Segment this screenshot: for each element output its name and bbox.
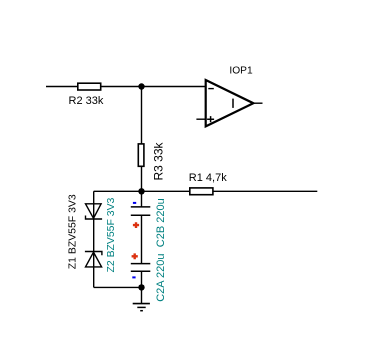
wire bottom-left horizontal to capacitor/ground node [94,286,142,288]
svg-text:R2 33k: R2 33k [69,95,104,107]
capacitor C2A plus polarity mark [132,253,138,259]
wire vertical from top net down through R3 to bottom net [141,87,143,192]
wire between C2B and C2A [141,215,143,263]
wire op-amp output stub [253,102,262,104]
capacitor C2B bottom plate [131,214,151,216]
zener diode Z1 triangle [86,204,102,219]
wire C2A bottom plate to ground [141,271,143,303]
svg-text:Z2 BZV55F 3V3: Z2 BZV55F 3V3 [106,197,117,272]
resistor R1 body [190,188,213,195]
op-amp U1 triangle body [206,80,254,126]
node B junction mid (R3/R1/zeners/caps) [138,188,144,194]
wire bottom net horizontal through R1 to right [94,190,318,192]
wire capacitor string: node to C2B top plate [141,191,143,207]
capacitor C2B minus polarity mark [133,202,136,204]
capacitor C2B plus polarity mark [133,222,139,228]
zener diode Z2 triangle [86,252,102,267]
capacitor C2B top plate [131,206,151,208]
svg-text:R3 33k: R3 33k [152,141,166,180]
resistor R3 body [138,144,144,166]
op-amp internal gain bar [232,99,234,108]
wire top net from left to op-amp inverting input [46,86,206,88]
zener diode Z2 cathode bar with right tab [85,252,102,256]
svg-text:R1 4,7k: R1 4,7k [189,172,227,184]
ground symbol [133,304,150,311]
resistor R2 body [78,83,101,90]
op-amp non-inverting pin plus mark [207,116,214,122]
svg-text:C2B 220u: C2B 220u [155,198,167,247]
node A junction top (R2/R3/op-amp) [138,83,144,89]
op-amp inverting pin minus mark [208,88,214,90]
wire zener branch vertical [93,191,95,287]
svg-text:IOP1: IOP1 [229,66,253,77]
capacitor C2A minus polarity mark [132,276,135,278]
node C junction bottom (caps/ground/zener return) [138,284,144,290]
zener diode Z1 cathode bar with left tab [86,216,103,220]
wire op-amp non-inverting input stub [196,118,205,120]
capacitor C2A bottom plate [131,270,151,272]
svg-text:C2A 220u: C2A 220u [155,253,167,301]
svg-text:Z1 BZV55F 3V3: Z1 BZV55F 3V3 [68,194,79,269]
capacitor C2A top plate [131,263,151,265]
